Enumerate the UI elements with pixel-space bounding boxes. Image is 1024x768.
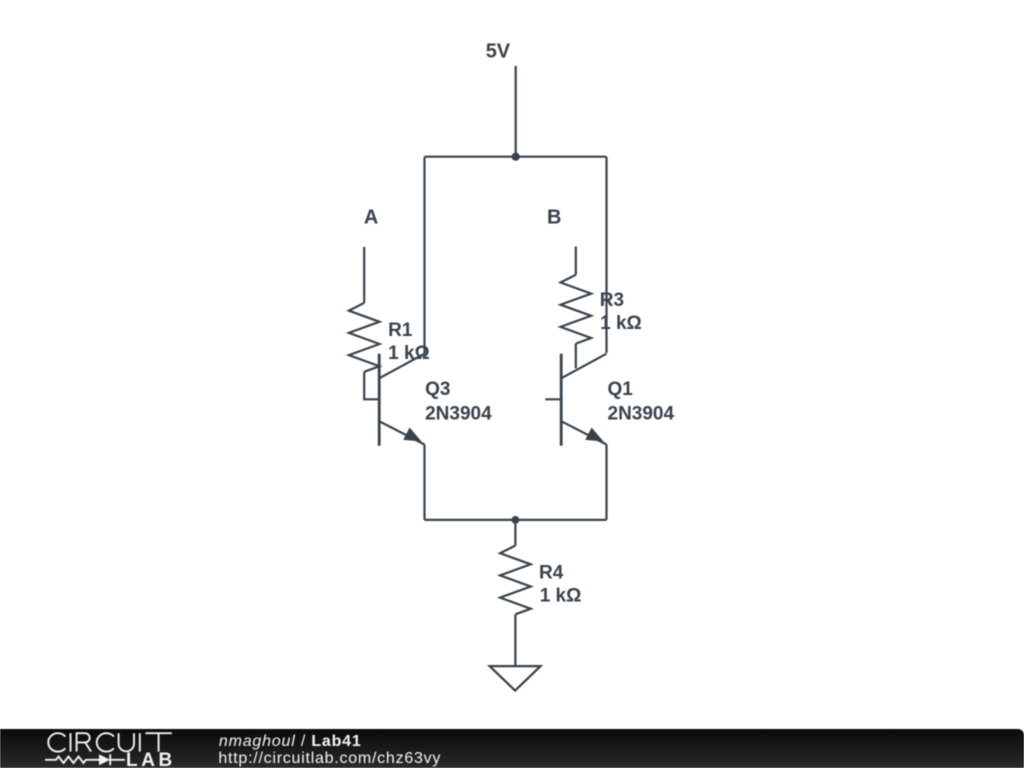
wire node A lead xyxy=(363,247,365,303)
wire right branch collector drop xyxy=(605,157,607,353)
transistor Q3 xyxy=(379,354,424,446)
logo resistor-diode line xyxy=(45,757,99,763)
transistor Q1 xyxy=(545,354,606,446)
resistor R1 xyxy=(349,303,380,372)
logo letter I xyxy=(70,733,72,751)
junction dot bottom xyxy=(512,516,520,524)
ground xyxy=(490,666,541,691)
wire Q3 emitter down xyxy=(423,445,425,520)
wire bottom rail xyxy=(425,519,607,521)
wire node B lead xyxy=(575,247,577,275)
logo letter I xyxy=(139,733,141,751)
footer url line 2 xyxy=(218,750,441,768)
logo diode cathode bar and wire xyxy=(110,754,125,765)
logo letter U xyxy=(119,733,134,751)
resistor R4 xyxy=(500,546,531,615)
junction dot top xyxy=(512,153,520,161)
logo letter R xyxy=(77,733,92,751)
wire left branch collector drop xyxy=(423,157,425,354)
logo diode triangle xyxy=(99,754,110,765)
resistor R3 xyxy=(561,275,592,344)
logo letter C xyxy=(97,733,114,751)
logo letter C xyxy=(48,733,65,751)
wire R3 bottom lead xyxy=(575,344,577,369)
CircuitLab logo wordmark CIRCUIT xyxy=(0,725,400,768)
wire 5V supply vertical xyxy=(515,66,517,157)
logo letter T xyxy=(145,733,171,751)
wire R4 to ground xyxy=(514,614,516,666)
footer attribution line 1 xyxy=(219,733,362,751)
wire Q1 base stub xyxy=(545,398,561,400)
wire R4 top lead xyxy=(514,520,516,546)
wire Q1 emitter down xyxy=(605,445,607,520)
wire top rail xyxy=(425,156,607,158)
svg-text:LAB: LAB xyxy=(126,750,176,768)
wire R1 to Q3 base xyxy=(364,372,379,400)
